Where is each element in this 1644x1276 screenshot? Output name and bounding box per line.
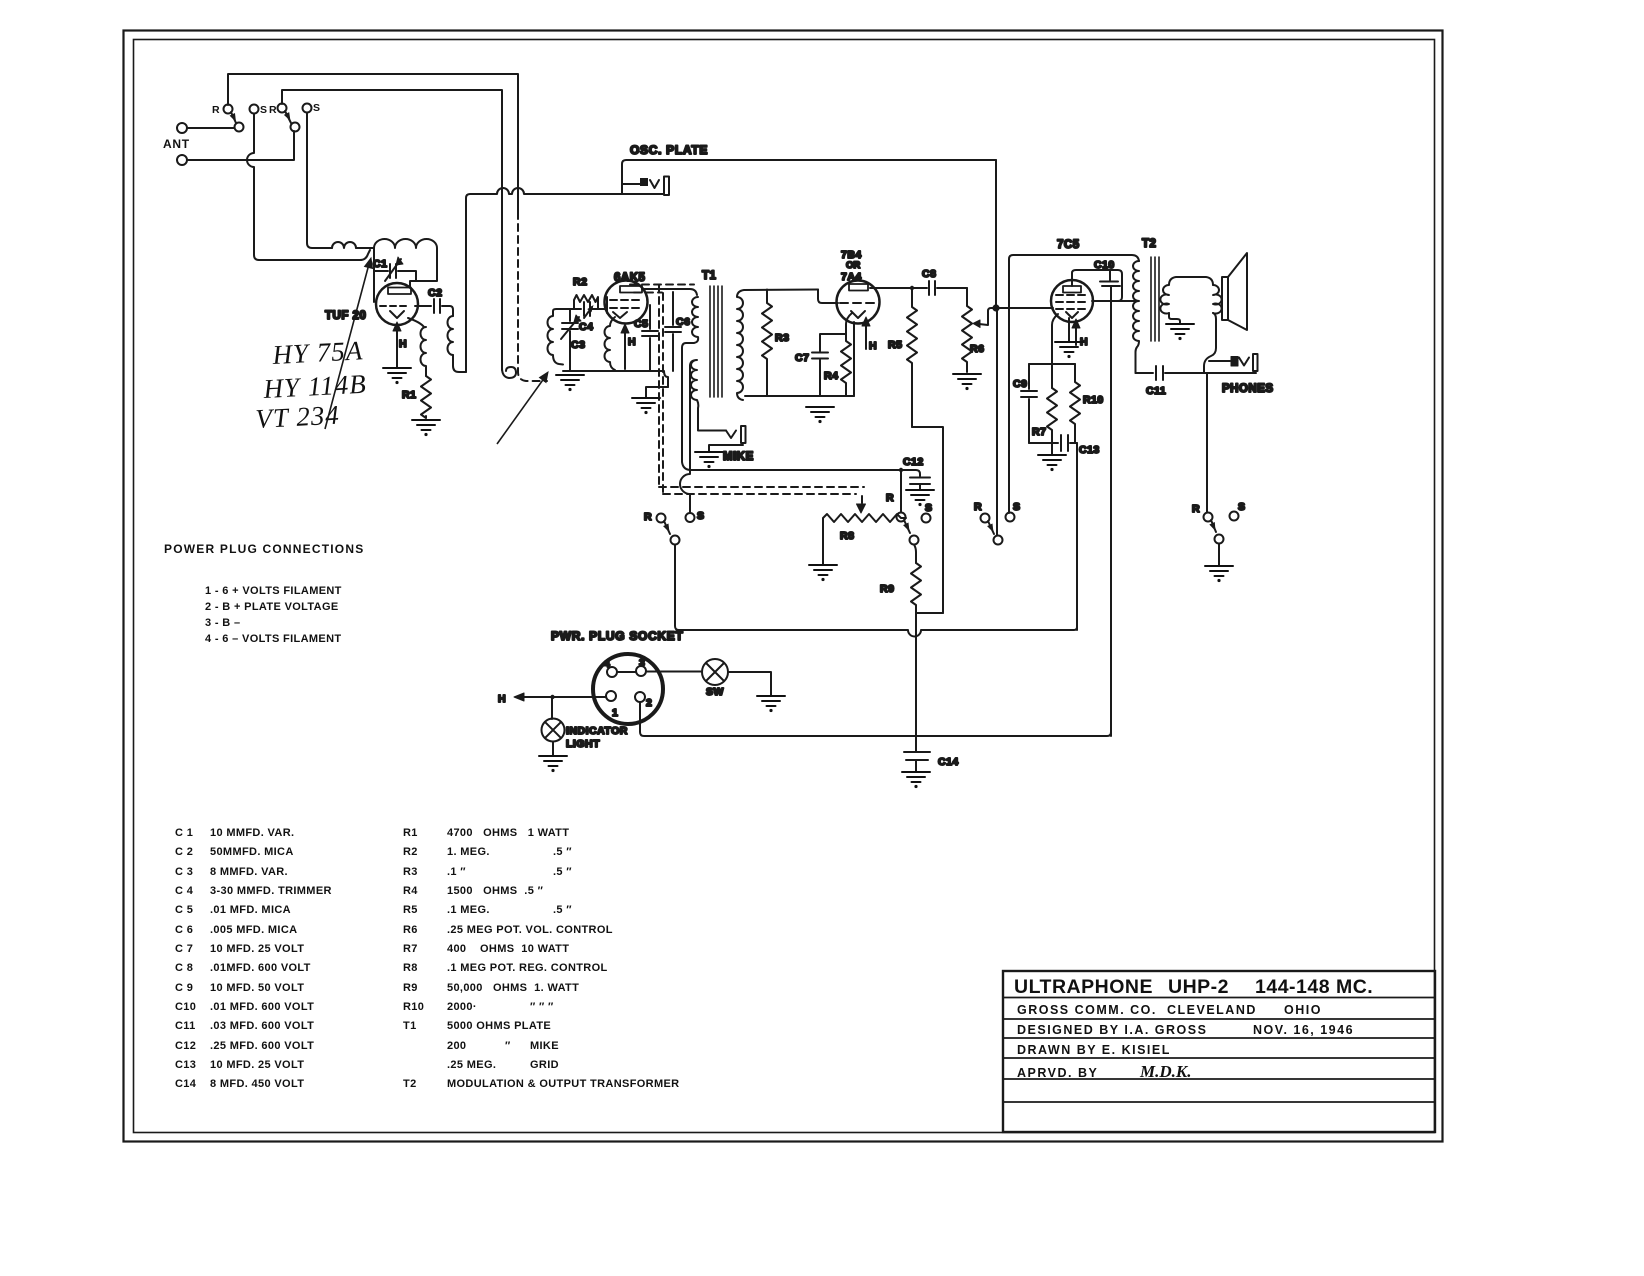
border frame (124, 31, 1443, 1142)
svg-text:C10: C10 (175, 1001, 196, 1013)
svg-text:GROSS COMM. CO.: GROSS COMM. CO. (1017, 1003, 1157, 1017)
svg-text:ANT: ANT (163, 137, 190, 151)
tube 7A4 (837, 281, 880, 324)
wire S1 contact down with hop to lower wire (247, 114, 259, 261)
wire B+ feed rail from T1 to C12 (691, 470, 920, 476)
svg-text:T1: T1 (403, 1020, 417, 1032)
svg-text:T1: T1 (702, 270, 717, 282)
lamp SW (702, 659, 728, 685)
annotation arrow to coupling link (497, 377, 545, 444)
svg-text:2: 2 (646, 697, 652, 709)
wire screen line to T2 tap (1092, 300, 1136, 302)
svg-text:10 MFD. 25 VOLT: 10 MFD. 25 VOLT (210, 1059, 304, 1071)
svg-text:H: H (869, 340, 877, 352)
svg-text:C12: C12 (903, 456, 924, 468)
svg-text:R7: R7 (1032, 426, 1046, 438)
ground under C7 (806, 407, 834, 423)
ground under C12 (906, 490, 934, 506)
svg-text:50,000 OHMS 1. WATT: 50,000 OHMS 1. WATT (447, 982, 579, 994)
wire grid coil bottom to OSC jack riser (453, 355, 466, 372)
svg-text:R5: R5 (888, 339, 902, 351)
inductor T2 primary (1133, 261, 1139, 373)
wire T1 primary bottom lead down to B+ rail (682, 348, 691, 470)
svg-text:C13: C13 (175, 1059, 196, 1071)
shield dashed box around 6AK5 output (630, 284, 694, 286)
svg-text:GRID: GRID (530, 1059, 559, 1071)
switch S1 antenna (R/S) (224, 105, 233, 114)
svg-text:10 MFD. 25 VOLT: 10 MFD. 25 VOLT (210, 943, 304, 955)
switch S2 antenna (R/S) (278, 104, 287, 113)
wiper arrowhead of R8 from shield (857, 504, 866, 513)
svg-text:2000·: 2000· (447, 1001, 477, 1013)
svg-text:R7: R7 (403, 943, 418, 955)
svg-text:R4: R4 (403, 885, 418, 897)
svg-text:C5: C5 (634, 318, 648, 330)
svg-text:R1: R1 (403, 827, 418, 839)
ground 6AK5 cathode rail (632, 398, 660, 414)
wire switch blade to R9 (914, 545, 916, 564)
heater arrow H of TUF20 (396, 329, 398, 367)
connector MIKE jack (726, 431, 736, 439)
wire pin4 to pin3 (617, 671, 636, 673)
svg-text:R10: R10 (1083, 394, 1104, 406)
svg-text:S: S (1013, 501, 1021, 513)
ground T2 secondary (1166, 324, 1194, 340)
heater arrow H of 6AK5 (624, 331, 626, 369)
resistor R2 (574, 295, 598, 309)
svg-text:.5 ″: .5 ″ (553, 866, 572, 878)
wire phones sleeve down to switch (1206, 373, 1208, 512)
wire H feed to pin1 (516, 696, 606, 698)
svg-text:8 MFD. 450 VOLT: 8 MFD. 450 VOLT (210, 1078, 304, 1090)
capacitor C2 (434, 299, 453, 316)
heater arrow H of 7A4 (865, 324, 867, 349)
wire riser to osc-plate jack line with hops (466, 188, 664, 372)
tube 7C5 (1051, 280, 1093, 322)
svg-text:C 5: C 5 (175, 904, 193, 916)
wire T1 secondary top to 7A4 grid (818, 290, 838, 304)
svg-text:R4: R4 (824, 370, 838, 382)
capacitor C4 trimmer (574, 302, 605, 316)
svg-text:C10: C10 (1094, 259, 1115, 271)
wire 6AK5 plate to T1 (642, 289, 697, 295)
wire 7A4 plate to C8 (870, 287, 927, 289)
svg-text:.25 MFD. 600 VOLT: .25 MFD. 600 VOLT (210, 1040, 314, 1052)
svg-text:144-148 MC.: 144-148 MC. (1255, 976, 1373, 998)
svg-text:CLEVELAND: CLEVELAND (1167, 1003, 1257, 1017)
svg-text:1500 OHMS .5 ″: 1500 OHMS .5 ″ (447, 885, 544, 897)
svg-text:PWR. PLUG SOCKET: PWR. PLUG SOCKET (551, 629, 684, 643)
svg-text:APRVD. BY: APRVD. BY (1017, 1066, 1098, 1080)
ground under R1 (412, 420, 440, 436)
svg-text:7A4: 7A4 (841, 271, 862, 283)
svg-text:S: S (260, 104, 268, 116)
capacitor C8 (929, 281, 967, 295)
svg-text:S: S (925, 502, 933, 514)
svg-text:H: H (399, 338, 407, 350)
svg-text:2 - B + PLATE VOLTAGE: 2 - B + PLATE VOLTAGE (205, 601, 339, 613)
resistor R1 (421, 376, 431, 418)
svg-text:.1 MEG.: .1 MEG. (447, 904, 490, 916)
svg-text:R: R (644, 511, 652, 523)
wire tank right side to plate (410, 252, 437, 287)
svg-text:1. MEG.: 1. MEG. (447, 846, 490, 858)
svg-text:C7: C7 (795, 352, 809, 364)
svg-text:MODULATION & OUTPUT TRANSFORME: MODULATION & OUTPUT TRANSFORMER (447, 1078, 679, 1090)
svg-text:″ ″ ″: ″ ″ ″ (530, 1001, 554, 1013)
wire rail step to ground (646, 387, 668, 397)
resistor R3 (762, 290, 772, 397)
connector OSC PLATE jack (622, 183, 640, 185)
svg-text:C3: C3 (571, 339, 585, 351)
capacitor C7 (812, 353, 828, 397)
capacitor C6 (665, 292, 681, 371)
svg-text:1: 1 (612, 707, 618, 719)
inductor speaker voice coil (1213, 285, 1222, 313)
svg-text:R8: R8 (403, 962, 418, 974)
svg-text:PHONES: PHONES (1222, 383, 1274, 395)
svg-text:.25 MEG.: .25 MEG. (447, 1059, 496, 1071)
ground MIKE jack sleeve (695, 452, 723, 468)
resistor R6 potentiometer (962, 288, 972, 372)
svg-text:8 MMFD. VAR.: 8 MMFD. VAR. (210, 866, 288, 878)
svg-text:T2: T2 (1142, 238, 1156, 250)
inductor T1 secondary (737, 290, 818, 401)
wire bottom rail 7A4 (745, 395, 854, 397)
svg-text:4 - 6 – VOLTS FILAMENT: 4 - 6 – VOLTS FILAMENT (205, 633, 341, 645)
svg-text:.1 ″: .1 ″ (447, 866, 466, 878)
svg-text:400 OHMS 10 WATT: 400 OHMS 10 WATT (447, 943, 569, 955)
wire T2 secondary to ground (1169, 313, 1180, 323)
svg-text:C 4: C 4 (175, 885, 194, 897)
wire indicator to ground (552, 742, 554, 756)
wire receive line into tank bottom (259, 250, 370, 260)
shield dashed along link (518, 212, 547, 381)
svg-text:3: 3 (639, 657, 645, 669)
svg-text:C12: C12 (175, 1040, 196, 1052)
svg-text:C 7: C 7 (175, 943, 193, 955)
svg-text:R: R (974, 501, 982, 513)
speaker horn (1222, 253, 1247, 330)
capacitor C14 (904, 752, 930, 771)
svg-text:INDICATOR: INDICATOR (566, 725, 628, 737)
ground phones switch (1205, 566, 1233, 582)
inductor grid coil TUF20 (448, 316, 453, 355)
svg-text:OSC. PLATE: OSC. PLATE (630, 143, 708, 157)
svg-text:UHP-2: UHP-2 (1168, 976, 1229, 998)
svg-text:.5 ″: .5 ″ (553, 846, 572, 858)
wire OSC PLATE top run (622, 160, 996, 194)
ground under R6 (953, 374, 981, 390)
capacitor C3 variable (562, 309, 578, 371)
wire R9 down to C14 (915, 613, 917, 751)
node S contact of second switch (303, 104, 312, 113)
heater arrow H of 7C5 (1075, 326, 1077, 345)
resistor R7 (1047, 388, 1057, 443)
svg-text:C1: C1 (373, 258, 387, 270)
ground under indicator (539, 756, 567, 772)
resistor R8 potentiometer (823, 514, 906, 522)
wire drop to R contact (900, 470, 902, 512)
svg-text:R1: R1 (402, 389, 416, 401)
pin 1 (606, 691, 616, 701)
svg-text:C6: C6 (676, 316, 690, 328)
svg-text:MIKE: MIKE (723, 451, 754, 463)
svg-text:3 - B –: 3 - B – (205, 617, 240, 629)
wire cathode node horizontal (1029, 363, 1075, 365)
svg-text:C14: C14 (938, 756, 959, 768)
wire choke to R1 (425, 372, 427, 376)
wire pin3 to lamp SW (646, 671, 702, 673)
node S contact of first switch (250, 105, 259, 114)
svg-text:S: S (313, 102, 321, 114)
svg-text:R9: R9 (880, 583, 894, 595)
wire OSC PLATE down to junction (995, 160, 997, 308)
inductor T2 secondary (1160, 277, 1213, 313)
wire 7C5 cathode to ground (1068, 318, 1070, 341)
junction plate/R5 (910, 286, 914, 290)
svg-text:4: 4 (604, 658, 610, 670)
svg-text:C 3: C 3 (175, 866, 193, 878)
resistor R9 (911, 563, 921, 613)
wire phones switch to ground (1218, 544, 1220, 566)
svg-text:HY 75A: HY 75A (271, 335, 364, 370)
svg-text:1 - 6 + VOLTS FILAMENT: 1 - 6 + VOLTS FILAMENT (205, 585, 342, 597)
svg-text:″: ″ (505, 1040, 511, 1052)
svg-text:M.D.K.: M.D.K. (1139, 1062, 1191, 1081)
node ANT terminal 2 (177, 155, 187, 165)
svg-text:C11: C11 (1146, 385, 1166, 397)
svg-text:C 9: C 9 (175, 982, 193, 994)
svg-text:C2: C2 (428, 287, 442, 299)
svg-text:DESIGNED BY I.A. GROSS: DESIGNED BY I.A. GROSS (1017, 1023, 1207, 1037)
svg-text:HY 114B: HY 114B (262, 369, 368, 404)
wire S2 contact down to osc tank top (307, 113, 332, 249)
svg-text:.01 MFD. MICA: .01 MFD. MICA (210, 904, 291, 916)
svg-text:C13: C13 (1079, 444, 1100, 456)
svg-text:C8: C8 (922, 268, 936, 280)
svg-text:7C5: 7C5 (1057, 239, 1080, 251)
capacitor C5 (642, 305, 658, 371)
svg-text:R6: R6 (970, 343, 984, 355)
pin 3 (636, 666, 646, 676)
svg-text:S: S (697, 510, 705, 522)
svg-text:C 2: C 2 (175, 846, 193, 858)
svg-text:MIKE: MIKE (530, 1040, 559, 1052)
svg-text:R: R (269, 104, 277, 116)
title block frame (1003, 971, 1435, 1132)
wire 7C5 plate top run from S contact (1009, 255, 1139, 513)
svg-text:H: H (498, 693, 506, 705)
ground under C3 (556, 375, 584, 391)
wiper of R6 (979, 308, 996, 325)
wire cathode node to C7 (820, 334, 846, 351)
svg-text:10 MMFD. VAR.: 10 MMFD. VAR. (210, 827, 294, 839)
wire ANT1 to switch blade (187, 127, 234, 129)
svg-text:R9: R9 (403, 982, 418, 994)
pin 4 (607, 667, 617, 677)
wire R5 bottom jog to R9 bottom (912, 427, 943, 613)
svg-text:OR: OR (846, 260, 860, 271)
pin 2 (635, 692, 645, 702)
wire tank left vertical (373, 250, 375, 302)
svg-text:R3: R3 (775, 332, 789, 344)
wire pin2 to B- bus (640, 702, 1111, 736)
svg-text:C9: C9 (1013, 378, 1027, 390)
ground under R8 (809, 565, 837, 581)
wire junction to 7C5 grid (996, 307, 1053, 309)
svg-text:R: R (1192, 503, 1200, 515)
inductor 6AK5 input tank coil (548, 309, 564, 365)
svg-text:.01 MFD. 600 VOLT: .01 MFD. 600 VOLT (210, 1001, 314, 1013)
svg-text:ULTRAPHONE: ULTRAPHONE (1014, 976, 1153, 998)
svg-text:POWER PLUG CONNECTIONS: POWER PLUG CONNECTIONS (164, 542, 364, 556)
svg-text:C14: C14 (175, 1078, 197, 1090)
wire antenna R contact feed (top bus to x=518) (228, 74, 518, 212)
ground under TUF20 heater (383, 368, 411, 384)
svg-text:C4: C4 (579, 321, 593, 333)
svg-text:200: 200 (447, 1040, 466, 1052)
svg-text:SW: SW (706, 686, 724, 698)
svg-text:3-30 MMFD. TRIMMER: 3-30 MMFD. TRIMMER (210, 885, 332, 897)
transformer T1 core (710, 286, 722, 397)
svg-text:H: H (628, 336, 636, 348)
inductor T1 primary upper winding (682, 297, 698, 348)
svg-text:.5 ″: .5 ″ (553, 904, 572, 916)
wire R7 C9 C13 node (1029, 442, 1058, 444)
wire grid to C2 (415, 305, 431, 307)
svg-text:C11: C11 (175, 1020, 196, 1032)
svg-text:R: R (212, 104, 220, 116)
svg-text:R6: R6 (403, 924, 418, 936)
wire SW to ground (728, 672, 771, 695)
wire junction to indicator light (551, 697, 553, 719)
node ANT terminal 1 (177, 123, 187, 133)
power socket circle (593, 654, 663, 724)
resistor R5 (907, 288, 917, 427)
wire R9 bottom jog (916, 612, 943, 614)
svg-text:DRAWN BY E. KISIEL: DRAWN BY E. KISIEL (1017, 1043, 1171, 1057)
svg-text:C 8: C 8 (175, 962, 193, 974)
svg-text:6AK5: 6AK5 (614, 272, 646, 284)
wire mike winding top to S contact with hop over shield (680, 366, 690, 513)
svg-text:R2: R2 (573, 276, 587, 288)
wire mike winding to jack (698, 430, 726, 432)
svg-text:.01MFD. 600 VOLT: .01MFD. 600 VOLT (210, 962, 311, 974)
coupling link hairpin loop (502, 367, 516, 378)
svg-text:OHIO: OHIO (1284, 1003, 1322, 1017)
svg-text:10 MFD. 50 VOLT: 10 MFD. 50 VOLT (210, 982, 304, 994)
TEXT_BLOCKS (1003, 971, 1435, 1132)
capacitor C1 (374, 264, 416, 281)
annotation arrow to oscillator tank (325, 264, 369, 429)
ground under 7C5 cathode (1055, 342, 1083, 358)
tube 6AK5 (605, 281, 648, 324)
svg-text:.1 MEG POT. REG. CONTROL: .1 MEG POT. REG. CONTROL (447, 962, 608, 974)
WIRES_AND_PARTS (163, 102, 364, 645)
wire tank top to R2/C4 junction (560, 308, 574, 310)
svg-text:.005 MFD. MICA: .005 MFD. MICA (210, 924, 297, 936)
inductor antenna coupling coil (332, 242, 356, 248)
svg-text:4700 OHMS 1 WATT: 4700 OHMS 1 WATT (447, 827, 569, 839)
ground under R7 (1051, 443, 1053, 454)
svg-text:LIGHT: LIGHT (566, 738, 600, 750)
svg-text:.03 MFD. 600 VOLT: .03 MFD. 600 VOLT (210, 1020, 314, 1032)
wire 7A4 cathode branch (846, 313, 852, 334)
tube TUF20 oscillator (376, 283, 418, 325)
svg-text:TUF 20: TUF 20 (325, 310, 366, 322)
inductor 6AK5 cathode coil (605, 317, 616, 370)
svg-text:R5: R5 (403, 904, 418, 916)
svg-text:R2: R2 (403, 846, 418, 858)
svg-text:5000 OHMS PLATE: 5000 OHMS PLATE (447, 1020, 551, 1032)
svg-text:50MMFD. MICA: 50MMFD. MICA (210, 846, 294, 858)
inductor T1 mike winding (690, 360, 698, 430)
wire voice coil to phones jack (1204, 313, 1216, 373)
transformer T2 core (1151, 257, 1159, 341)
wire C10 bottom long drop to B- bus (1110, 287, 1112, 736)
wire antenna R2 contact feed (to coupling link x=502) (282, 90, 502, 370)
svg-text:S: S (1238, 501, 1246, 513)
svg-text:R10: R10 (403, 1001, 424, 1013)
capacitor C12 (910, 478, 930, 490)
svg-text:R3: R3 (403, 866, 418, 878)
svg-text:.25 MEG POT. VOL. CONTROL: .25 MEG POT. VOL. CONTROL (447, 924, 613, 936)
wire 6AK5 stage bottom rail (563, 371, 668, 387)
wire plate lead to C10 top (1072, 270, 1122, 301)
resistor R4 (841, 334, 851, 396)
capacitor C11 (1136, 366, 1205, 380)
resistor R10 (1070, 364, 1080, 443)
svg-text:R8: R8 (840, 530, 854, 542)
wire junction down to RS switch (996, 311, 998, 535)
lamp indicator light (542, 719, 565, 742)
inductor L1 oscillator tank coil (374, 239, 437, 252)
capacitor C9 (1021, 364, 1037, 443)
svg-text:C 6: C 6 (175, 924, 193, 936)
capacitor C10 (1100, 270, 1120, 286)
node junction dot B+ / grid (992, 304, 999, 311)
wire supply bus with hop at R9 drop (675, 545, 1077, 637)
wire 7C5 cathode-left down to R7 node (1052, 314, 1058, 388)
inductor cathode choke TUF20 (408, 318, 424, 327)
wire C13 to bus riser (1076, 443, 1078, 630)
wire cathode return riser (853, 322, 855, 396)
connector PHONES jack (1209, 360, 1230, 362)
wire R8 left end to ground (822, 521, 824, 564)
ground under C14 (902, 772, 930, 788)
svg-text:T2: T2 (403, 1078, 417, 1090)
svg-text:C 1: C 1 (175, 827, 193, 839)
wire ANT2 to blade 2 riser (187, 131, 294, 160)
svg-text:R: R (886, 492, 894, 504)
wire phones jack sleeve bottom (1204, 372, 1256, 374)
ground after SW (757, 696, 785, 712)
capacitor C13 (1061, 435, 1077, 451)
svg-text:NOV. 16, 1946: NOV. 16, 1946 (1253, 1023, 1354, 1037)
